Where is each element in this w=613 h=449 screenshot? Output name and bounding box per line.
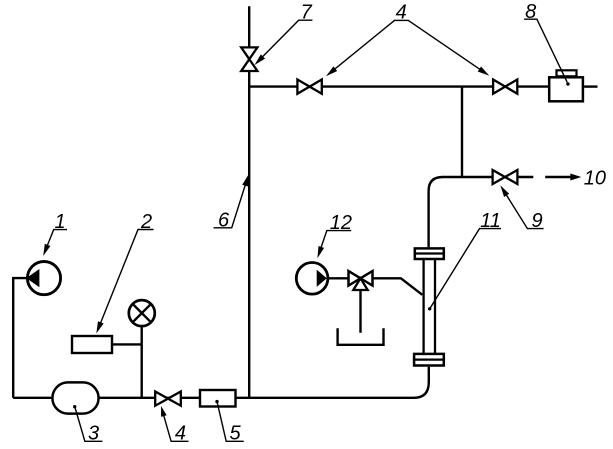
wire: stub right of box 8 (584, 85, 597, 87)
label 12 leader (317, 231, 351, 259)
label 4 (bottom) leader (161, 406, 189, 441)
wire: top horizontal line from line 6 to box 8 (249, 85, 548, 87)
svg-text:3: 3 (88, 423, 99, 445)
wire: branch vertical from top line down to mid line (461, 87, 463, 177)
label 11 leader with dot (428, 229, 501, 311)
svg-text:8: 8 (525, 1, 536, 23)
label 4 (top) with two leaders (326, 20, 489, 76)
wire: stub from box 2 to gauge stem (112, 343, 142, 345)
column 11: tube body (424, 259, 435, 353)
valve 4a (left valve on top line) (297, 80, 321, 94)
tank (open reservoir) (338, 328, 384, 345)
column 11: bottom flange (413, 354, 445, 366)
svg-text:9: 9 (531, 210, 542, 232)
wire: main vertical line (net 6) (248, 6, 250, 398)
valve 4 (bottom line) (155, 392, 181, 406)
label 2 leader (96, 230, 153, 334)
label 6 leader (214, 174, 249, 228)
apparatus 8 (box with cap) (549, 70, 583, 101)
svg-text:5: 5 (229, 423, 241, 445)
vessel 3 (oval) (52, 382, 98, 413)
wire: mid horizontal line with elbow down to column 11 (429, 177, 534, 247)
label 5 leader with dot (215, 400, 243, 441)
wire: elbow below column 11 to bottom line (414, 367, 429, 398)
wire: pump 12 discharge to 3-way valve (327, 277, 349, 279)
filter 5 (rectangle) (200, 390, 236, 407)
flow arrow to outlet 10 (545, 174, 581, 181)
label 8 leader with dot (524, 19, 570, 86)
label 1 leader (43, 230, 67, 256)
wire: 3-way valve to column 11 (with diagonal) (373, 278, 423, 295)
svg-text:4: 4 (396, 2, 407, 24)
svg-text:7: 7 (301, 2, 313, 24)
valve 9 (on mid line) (493, 170, 518, 184)
label 9 leader (500, 185, 543, 228)
column 11: top flange (414, 248, 445, 259)
svg-text:2: 2 (140, 211, 152, 233)
svg-text:11: 11 (480, 210, 501, 232)
box 2 (instrument) (72, 336, 112, 353)
wire: 3-way valve drain down into tank (359, 290, 361, 333)
wire: pump 1 suction line (left and down) (13, 278, 27, 398)
wire: gauge stem down to bottom line (140, 326, 142, 398)
label 7 leader (255, 20, 313, 65)
valve 4b (right valve on top line) (493, 80, 517, 94)
svg-text:4: 4 (175, 423, 186, 445)
pump 12 (296, 263, 328, 295)
wire: bottom horizontal return line (13, 397, 415, 399)
valve 7 (vertical, on line 6) (241, 47, 257, 71)
3-way valve (by pump 12) (349, 271, 373, 290)
pressure gauge (circle with X) (129, 300, 155, 326)
pump P1 (27, 262, 60, 295)
svg-text:1: 1 (54, 211, 65, 233)
svg-text:6: 6 (218, 210, 230, 232)
svg-text:10: 10 (584, 168, 606, 190)
svg-text:12: 12 (330, 212, 352, 234)
label 3 leader with dot (73, 405, 102, 441)
